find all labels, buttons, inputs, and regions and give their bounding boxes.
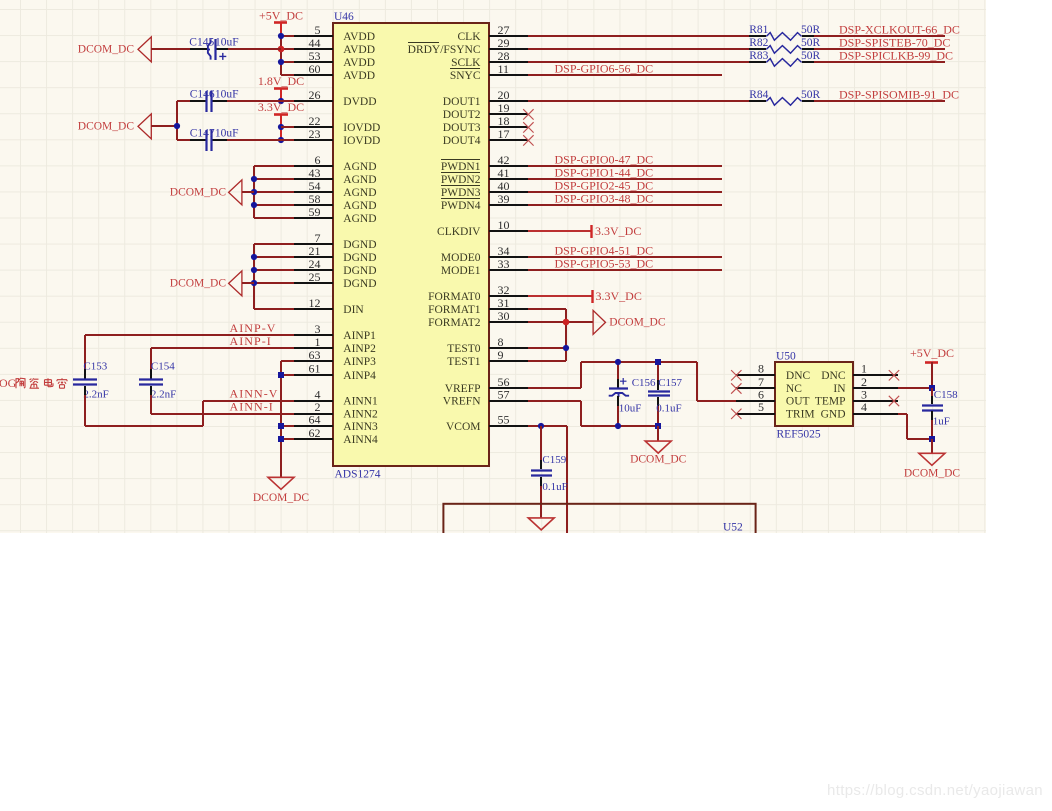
svg-text:PWDN1: PWDN1	[441, 161, 481, 173]
svg-text:12: 12	[309, 296, 321, 310]
svg-text:43: 43	[309, 166, 321, 180]
svg-text:C145: C145	[189, 37, 214, 49]
junction AIN bus	[278, 423, 284, 429]
svg-text:DSP-GPIO3-48_DC: DSP-GPIO3-48_DC	[555, 192, 654, 206]
wire DCOM#3 to AGND bus	[242, 191, 254, 193]
svg-text:U52: U52	[723, 522, 743, 534]
U46 pin 43 (AGND)	[294, 166, 377, 186]
svg-text:3: 3	[315, 322, 321, 336]
junction C157 bottom (square)	[655, 423, 661, 429]
svg-text:30: 30	[498, 309, 510, 323]
svg-text:PWDN3: PWDN3	[441, 187, 481, 199]
svg-text:3.3V_DC: 3.3V_DC	[595, 224, 641, 238]
wire stub pin 62	[281, 438, 294, 440]
svg-text:DCOM_DC: DCOM_DC	[78, 121, 135, 133]
wire VREFP right	[528, 387, 581, 389]
svg-text:AGND: AGND	[343, 161, 376, 173]
svg-text:10uF: 10uF	[215, 128, 239, 140]
capacitor C159 0.1uF	[531, 426, 568, 518]
svg-text:R84: R84	[749, 89, 768, 101]
junction C158 bottom (square)	[929, 436, 935, 442]
svg-text:58: 58	[309, 192, 321, 206]
svg-text:DCOM_DC: DCOM_DC	[253, 492, 310, 504]
wire FORMAT2 to DCOM port	[528, 321, 593, 323]
wire pin to R81	[528, 35, 749, 37]
wire stub pin 22	[281, 126, 294, 128]
U46 pin 33 (MODE1)	[441, 257, 528, 277]
U50 pin 1 (DNC)	[821, 362, 898, 382]
U46 pin 1 (AINP2)	[294, 335, 376, 355]
U46 pin 54 (AGND)	[294, 179, 377, 199]
svg-text:AINN1: AINN1	[343, 396, 378, 408]
junction at IOVDD pin 22	[278, 124, 284, 130]
svg-text:DCOM_DC: DCOM_DC	[630, 453, 687, 465]
svg-text:DSP-GPIO1-44_DC: DSP-GPIO1-44_DC	[555, 166, 654, 180]
wire stub pin 5	[281, 35, 294, 37]
svg-text:18: 18	[498, 114, 510, 128]
U46 pin 10 (CLKDIV)	[437, 218, 528, 238]
U46 pin 55 (VCOM)	[446, 413, 528, 433]
resistor R83 50R	[749, 50, 821, 66]
svg-text:19: 19	[498, 101, 510, 115]
svg-text:IOVDD: IOVDD	[343, 135, 380, 147]
svg-text:2.2nF: 2.2nF	[151, 389, 176, 401]
svg-text:3.3V_DC: 3.3V_DC	[596, 289, 642, 303]
U46 pin 22 (IOVDD)	[294, 114, 380, 134]
svg-text:10uF: 10uF	[619, 403, 642, 415]
svg-text:DCOM_DC: DCOM_DC	[78, 44, 135, 56]
svg-text:20: 20	[498, 88, 510, 102]
svg-text:62: 62	[309, 426, 321, 440]
U46 pin 2 (AINN2)	[294, 400, 378, 420]
ground DCOM_DC #5 (AIN bus)	[253, 477, 310, 504]
U46 pin 4 (AINN1)	[294, 387, 378, 407]
svg-text:NC: NC	[786, 383, 802, 395]
svg-text:AINP4: AINP4	[343, 370, 376, 382]
junction C156 bottom	[615, 423, 621, 429]
svg-text:DCOM_DC: DCOM_DC	[609, 317, 666, 329]
svg-text:10uF: 10uF	[215, 89, 239, 101]
svg-text:C147: C147	[190, 128, 215, 140]
svg-text:AGND: AGND	[343, 200, 376, 212]
wire PWDN net DSP-GPIO2-45_DC	[528, 191, 722, 193]
ground DCOM_DC #6 (VREF)	[630, 441, 687, 465]
U46 pin 56 (VREFP)	[445, 375, 528, 395]
U46 pin 19 (DOUT2)	[443, 101, 528, 121]
svg-text:ADS1274: ADS1274	[335, 469, 381, 481]
svg-text:AINP-V: AINP-V	[230, 321, 277, 335]
wire AINP-V down leg	[84, 335, 86, 369]
svg-text:DVDD: DVDD	[343, 96, 376, 108]
svg-text:64: 64	[309, 413, 321, 427]
U50 pin 6 (OUT)	[736, 387, 810, 407]
svg-text:AINN3: AINN3	[343, 421, 378, 433]
wire stub AGND pin 43	[254, 178, 294, 180]
junction at pin 44 (red)	[278, 46, 285, 53]
svg-text:DCOM_DC: DCOM_DC	[170, 187, 227, 199]
svg-text:COG: COG	[0, 376, 17, 390]
wire VCOM pin 55	[528, 425, 567, 427]
wire C153 bottom leg	[84, 386, 86, 395]
wire stub AGND pin 6	[254, 165, 294, 167]
svg-text:MODE1: MODE1	[441, 265, 481, 277]
junction AIN bus	[278, 372, 284, 378]
wire PWDN net DSP-GPIO1-44_DC	[528, 178, 722, 180]
capacitor C158 1uF	[922, 388, 958, 439]
wire PWDN net DSP-GPIO0-47_DC	[528, 165, 722, 167]
ground DCOM_DC #8 (C158)	[904, 453, 961, 479]
wire stub pin 60	[281, 74, 294, 76]
svg-text:SCLK: SCLK	[451, 57, 481, 69]
svg-text:SNYC: SNYC	[450, 70, 481, 82]
svg-text:DRDY/FSYNC: DRDY/FSYNC	[408, 44, 481, 56]
svg-text:DOUT4: DOUT4	[443, 135, 481, 147]
svg-text:DSP-XCLKOUT-66_DC: DSP-XCLKOUT-66_DC	[839, 23, 960, 37]
wire AINN-V bottom horizontal	[85, 425, 203, 427]
power port DCOM_DC #4 (DGND)	[229, 271, 242, 296]
svg-text:AGND: AGND	[343, 213, 376, 225]
svg-text:OUT: OUT	[786, 396, 810, 408]
junction at DVDD pin 26	[278, 98, 284, 104]
svg-text:AVDD: AVDD	[343, 44, 375, 56]
U46 pin 39 (PWDN4)	[441, 192, 528, 212]
wire C147 right segment	[227, 139, 281, 141]
wire AINN-I to pin 2	[151, 413, 294, 415]
capacitor C157 0.1uF	[648, 362, 683, 426]
svg-text:IN: IN	[833, 383, 846, 395]
svg-text:R83: R83	[749, 50, 768, 62]
junction AGND bus	[251, 202, 257, 208]
wire vertical joining C146/C147	[176, 101, 178, 140]
svg-text:32: 32	[498, 283, 510, 297]
svg-text:REF5025: REF5025	[777, 428, 821, 440]
capacitor C147 10uF	[190, 139, 206, 141]
svg-text:DCOM_DC: DCOM_DC	[904, 467, 961, 479]
svg-text:+5V_DC: +5V_DC	[259, 9, 303, 23]
svg-text:41: 41	[498, 166, 510, 180]
wire stub pin 44	[281, 48, 294, 50]
svg-text:U50: U50	[776, 351, 796, 363]
svg-text:61: 61	[309, 362, 321, 376]
wire AINN-V to pin 4	[203, 400, 294, 402]
U46 pin 17 (DOUT4)	[443, 127, 528, 147]
power port 3.3V_DC (CLKDIV)	[590, 225, 592, 238]
junction at IOVDD pin 23	[278, 137, 284, 143]
watermark	[827, 782, 1043, 799]
svg-text:DGND: DGND	[343, 265, 376, 277]
svg-text:AINP2: AINP2	[343, 343, 376, 355]
svg-text:DOUT1: DOUT1	[443, 96, 481, 108]
wire VREF top bus	[581, 361, 697, 363]
U46 pin 5 (AVDD)	[294, 23, 375, 43]
svg-text:42: 42	[498, 153, 510, 167]
wire PWDN net DSP-GPIO3-48_DC	[528, 204, 722, 206]
resistor R81 50R	[749, 24, 821, 40]
svg-text:DGND: DGND	[343, 252, 376, 264]
power port +5V_DC (bar symbol)	[259, 9, 303, 37]
U46 pin 42 (PWDN1)	[441, 153, 528, 173]
wire R84 to net DSP-SPISOMIB-91_DC	[814, 100, 945, 102]
U46 pin 62 (AINN4)	[294, 426, 378, 446]
svg-text:AINN4: AINN4	[343, 434, 378, 446]
svg-text:DOUT3: DOUT3	[443, 122, 481, 134]
wire DGND vertical bus	[253, 244, 255, 309]
svg-text:31: 31	[498, 296, 510, 310]
svg-text:10uF: 10uF	[215, 37, 239, 49]
svg-text:VREFP: VREFP	[445, 383, 481, 395]
svg-text:FORMAT2: FORMAT2	[428, 317, 481, 329]
svg-text:1: 1	[315, 335, 321, 349]
svg-text:VCOM: VCOM	[446, 421, 481, 433]
svg-text:4: 4	[861, 400, 867, 414]
svg-text:DSP-SPISTEB-70_DC: DSP-SPISTEB-70_DC	[839, 36, 950, 50]
junction at pin 5	[278, 33, 284, 39]
wire CLKDIV to 3.3V_DC	[528, 230, 592, 232]
junction DGND bus	[251, 280, 257, 286]
svg-text:3.3V_DC: 3.3V_DC	[258, 100, 304, 114]
wire VREFN down leg	[580, 401, 582, 426]
svg-text:R81: R81	[749, 24, 768, 36]
svg-text:50R: 50R	[801, 24, 821, 36]
svg-text:39: 39	[498, 192, 510, 206]
svg-text:40: 40	[498, 179, 510, 193]
junction AGND bus	[251, 189, 257, 195]
capacitor C153 2.2nF	[73, 361, 109, 401]
U50 pin 2 (IN)	[833, 375, 898, 395]
svg-text:MODE0: MODE0	[441, 252, 481, 264]
wire AINN-V up leg	[202, 401, 204, 426]
U46 pin 20 (DOUT1)	[443, 88, 528, 108]
U46 pin 25 (DGND)	[294, 270, 377, 290]
no-connect X U50 left pin	[731, 370, 741, 380]
svg-text:DSP-GPIO0-47_DC: DSP-GPIO0-47_DC	[555, 153, 654, 167]
svg-text:8: 8	[498, 335, 504, 349]
svg-text:TEST0: TEST0	[447, 343, 480, 355]
svg-text:11: 11	[498, 62, 510, 76]
junction TEST0	[563, 345, 569, 351]
wire stub DGND pin 7	[254, 243, 294, 245]
svg-text:2.2nF: 2.2nF	[83, 389, 108, 401]
capacitor C156 10uF (polarized)	[609, 362, 656, 426]
U46 pin 12 (DIN)	[294, 296, 364, 316]
junction DGND bus	[251, 254, 257, 260]
power port 1.8V_DC (bar symbol)	[258, 74, 304, 101]
svg-text:50R: 50R	[801, 37, 821, 49]
junction AGND bus	[251, 176, 257, 182]
wire AINP3/AINP4/AINN3/AINN4 ground bus	[280, 361, 282, 477]
U46 pin 44 (AVDD)	[294, 36, 375, 56]
svg-text:60: 60	[309, 62, 321, 76]
U46 pin 11 (SNYC)	[450, 62, 528, 82]
svg-text:25: 25	[309, 270, 321, 284]
U46 pin 63 (AINP3)	[294, 348, 376, 368]
svg-text:DSP-GPIO2-45_DC: DSP-GPIO2-45_DC	[555, 179, 654, 193]
svg-text:DOUT2: DOUT2	[443, 109, 481, 121]
svg-text:U46: U46	[334, 11, 354, 23]
svg-text:DGND: DGND	[343, 278, 376, 290]
U46 pin 57 (VREFN)	[443, 387, 528, 407]
svg-text:44: 44	[309, 36, 321, 50]
svg-text:55: 55	[498, 413, 510, 427]
junction FORMAT2 (red)	[563, 319, 570, 326]
svg-text:AINN2: AINN2	[343, 408, 378, 420]
U46 pin 23 (IOVDD)	[294, 127, 380, 147]
svg-text:8: 8	[758, 362, 764, 376]
wire stub DGND pin 25	[254, 282, 294, 284]
svg-text:59: 59	[309, 205, 321, 219]
svg-text:AVDD: AVDD	[343, 31, 375, 43]
svg-text:C158: C158	[934, 389, 958, 401]
U50 pin 5 (TRIM)	[736, 400, 815, 420]
svg-text:17: 17	[498, 127, 510, 141]
junction AIN bus	[278, 436, 284, 442]
wire stub pin 23	[281, 139, 294, 141]
svg-text:C154: C154	[151, 361, 175, 373]
svg-text:FORMAT0: FORMAT0	[428, 291, 481, 303]
wire stub pin 61	[281, 374, 294, 376]
resistor R84 50R	[749, 89, 821, 105]
U46 pin 29 (DRDY/FSYNC)	[408, 36, 528, 56]
svg-text:29: 29	[498, 36, 510, 50]
svg-text:6: 6	[315, 153, 321, 167]
U46 pin 6 (AGND)	[294, 153, 377, 173]
svg-text:0.1uF: 0.1uF	[656, 403, 681, 415]
U50 pin 4 (GND)	[821, 400, 898, 420]
wire C145 to +5V bus	[228, 48, 281, 50]
capacitor C146 10uF	[190, 100, 206, 102]
wire pin 11 SNYC net	[528, 74, 722, 76]
svg-text:DSP-GPIO5-53_DC: DSP-GPIO5-53_DC	[555, 257, 654, 271]
wire stub DGND pin 12	[254, 308, 294, 310]
svg-text:53: 53	[309, 49, 321, 63]
power port DCOM_DC #3 (AGND)	[229, 180, 242, 205]
wire C157 to ground	[657, 426, 659, 441]
svg-text:CLK: CLK	[458, 31, 482, 43]
U46 pin 9 (TEST1)	[447, 348, 528, 368]
svg-text:CLKDIV: CLKDIV	[437, 226, 481, 238]
U46 pin 8 (TEST0)	[447, 335, 528, 355]
U50 pin 8 (DNC)	[736, 362, 811, 382]
wire MODE net DSP-GPIO4-51_DC	[528, 256, 722, 258]
svg-text:22: 22	[309, 114, 321, 128]
svg-text:0.1uF: 0.1uF	[542, 481, 567, 493]
junction at pin 53	[278, 59, 284, 65]
U46 pin 32 (FORMAT0)	[428, 283, 528, 303]
svg-text:AINP1: AINP1	[343, 330, 376, 342]
svg-text:5: 5	[315, 23, 321, 37]
wire MODE net DSP-GPIO5-53_DC	[528, 269, 722, 271]
wire stub pin 63	[281, 360, 294, 362]
svg-text:50R: 50R	[801, 89, 821, 101]
svg-text:21: 21	[309, 244, 321, 258]
svg-text:TRIM: TRIM	[786, 408, 815, 420]
svg-text:PWDN2: PWDN2	[441, 174, 481, 186]
svg-text:24: 24	[309, 257, 321, 271]
svg-text:C159: C159	[542, 454, 566, 466]
junction C159 top	[538, 423, 544, 429]
wire C146 left segment	[177, 100, 190, 102]
wire VREF bus down leg	[696, 362, 698, 401]
svg-text:9: 9	[498, 348, 504, 362]
power port DCOM_DC #2	[138, 114, 151, 139]
wire FORMAT0 to 3.3V_DC	[528, 295, 592, 297]
svg-text:54: 54	[309, 179, 321, 193]
svg-text:TEMP: TEMP	[815, 396, 846, 408]
svg-text:DSP-GPIO4-51_DC: DSP-GPIO4-51_DC	[555, 244, 654, 258]
wire VREFN right	[528, 400, 581, 402]
U46 pin 28 (SCLK)	[451, 49, 528, 69]
U46 pin 53 (AVDD)	[294, 49, 375, 69]
junction C156 top	[615, 359, 621, 365]
wire AINP-V to pin 3	[85, 334, 294, 336]
wire DCOM vertical (FORMAT/TEST)	[565, 309, 567, 361]
wire TEST1 stub	[528, 360, 566, 362]
svg-text:28: 28	[498, 49, 510, 63]
wire stub DGND pin 24	[254, 269, 294, 271]
svg-text:50R: 50R	[801, 50, 821, 62]
wire DCOM#2 to vertical	[151, 125, 177, 127]
svg-text:26: 26	[309, 88, 321, 102]
svg-text:57: 57	[498, 387, 510, 401]
wire U50 GND pin 4	[898, 414, 932, 439]
wire VREFP up leg	[580, 362, 582, 388]
U46 pin 58 (AGND)	[294, 192, 377, 212]
svg-text:1: 1	[861, 362, 867, 376]
U46 pin 7 (DGND)	[294, 231, 377, 251]
wire pin to R82	[528, 48, 749, 50]
capacitor C154 2.2nF	[139, 361, 176, 401]
op IC U50 body (REF5025)	[775, 362, 853, 426]
svg-text:R82: R82	[749, 37, 768, 49]
U46 pin 40 (PWDN3)	[441, 179, 528, 199]
wire to U50 OUT pin 6	[697, 400, 736, 402]
U46 pin 30 (FORMAT2)	[428, 309, 528, 329]
no-connect X pin 18	[523, 122, 533, 132]
U46 pin 31 (FORMAT1)	[428, 296, 528, 316]
wire DCOM#4 to DGND bus	[242, 282, 254, 284]
op IC U52 body (partial)	[443, 504, 755, 544]
wire pin to R83	[528, 61, 749, 63]
power port DCOM_DC #1	[138, 37, 151, 62]
U46 pin 21 (DGND)	[294, 244, 377, 264]
svg-text:C153: C153	[83, 361, 107, 373]
svg-text:AGND: AGND	[343, 174, 376, 186]
svg-text:DNC: DNC	[821, 370, 846, 382]
power port 3.3V_DC (FORMAT0)	[591, 290, 593, 303]
U46 pin 61 (AINP4)	[294, 362, 376, 382]
power port 3.3V_DC (bar symbol, IOVDD)	[258, 100, 304, 140]
svg-text:C156: C156	[632, 377, 656, 389]
wire R83 to net DSP-SPICLKB-99_DC	[814, 61, 945, 63]
wire down to U52	[566, 426, 568, 533]
junction DGND bus	[251, 267, 257, 273]
wire stub AGND pin 54	[254, 191, 294, 193]
capacitor C145 10uF (polarized)	[189, 37, 238, 61]
svg-text:AINN-I: AINN-I	[230, 400, 274, 414]
wire AGND vertical bus	[253, 166, 255, 218]
svg-text:PWDN4: PWDN4	[441, 200, 481, 212]
wire stub DGND pin 21	[254, 256, 294, 258]
svg-text:AINP-I: AINP-I	[230, 334, 272, 348]
wire VREFN bottom bus	[581, 425, 658, 427]
no-connect X U50 right pin	[889, 396, 899, 406]
svg-text:C157: C157	[658, 377, 682, 389]
wire stub pin 64	[281, 425, 294, 427]
svg-text:AINP3: AINP3	[343, 356, 376, 368]
U46 pin 64 (AINN3)	[294, 413, 378, 433]
wire C158 to ground	[931, 439, 933, 453]
svg-text:DNC: DNC	[786, 370, 811, 382]
